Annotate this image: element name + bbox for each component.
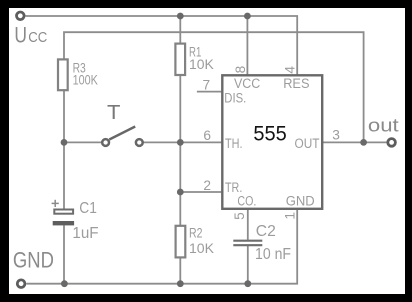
svg-text:6: 6 bbox=[203, 128, 211, 143]
svg-text:1: 1 bbox=[283, 212, 298, 220]
svg-text:OUT: OUT bbox=[295, 136, 320, 151]
svg-text:CC: CC bbox=[28, 29, 47, 46]
svg-text:4: 4 bbox=[283, 66, 298, 74]
svg-text:8: 8 bbox=[233, 65, 248, 73]
svg-text:10 nF: 10 nF bbox=[255, 246, 291, 263]
svg-text:C1: C1 bbox=[79, 200, 97, 217]
svg-text:DIS.: DIS. bbox=[224, 91, 246, 106]
svg-text:10K: 10K bbox=[189, 240, 215, 256]
svg-text:7: 7 bbox=[202, 78, 210, 93]
svg-text:10K: 10K bbox=[189, 56, 214, 72]
svg-text:GND: GND bbox=[13, 247, 54, 272]
svg-text:RES: RES bbox=[283, 76, 309, 91]
svg-text:out: out bbox=[368, 114, 399, 135]
svg-text:555: 555 bbox=[253, 122, 286, 145]
svg-text:CO.: CO. bbox=[237, 194, 256, 209]
svg-text:3: 3 bbox=[332, 128, 340, 143]
svg-text:GND: GND bbox=[286, 194, 315, 209]
svg-text:TH.: TH. bbox=[225, 136, 243, 151]
svg-text:T: T bbox=[107, 102, 120, 124]
svg-text:1uF: 1uF bbox=[72, 225, 98, 242]
svg-text:R2: R2 bbox=[189, 225, 203, 241]
svg-text:2: 2 bbox=[203, 178, 211, 193]
svg-text:VCC: VCC bbox=[234, 76, 261, 91]
svg-text:C2: C2 bbox=[256, 223, 276, 240]
svg-text:100K: 100K bbox=[73, 72, 99, 88]
svg-text:5: 5 bbox=[232, 212, 247, 220]
svg-text:U: U bbox=[14, 22, 27, 47]
